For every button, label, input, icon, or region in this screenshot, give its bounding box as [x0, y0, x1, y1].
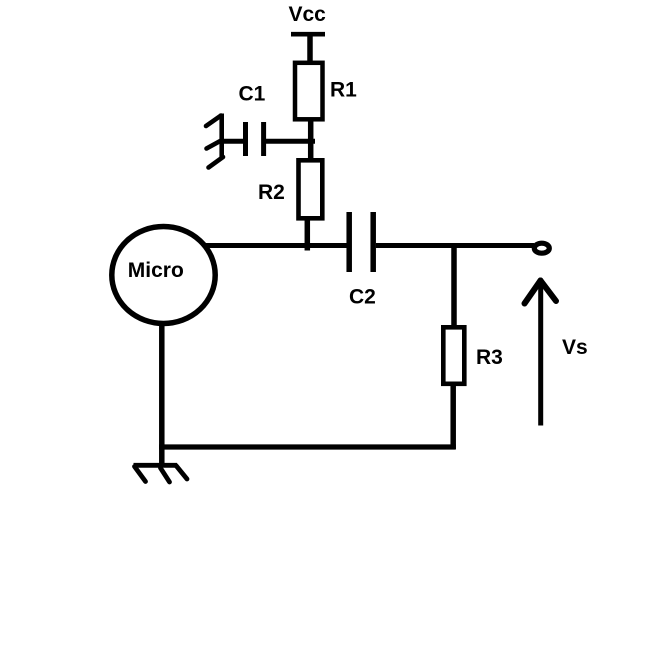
arrow Vs	[525, 281, 557, 426]
wire R2 bottom to main node	[305, 218, 311, 251]
label C2	[349, 286, 376, 309]
wire C2 to output terminal	[376, 243, 534, 248]
wire R3 bottom to bottom rail	[450, 383, 456, 449]
wire bottom rail	[159, 444, 456, 449]
label Micro	[128, 259, 184, 282]
svg-text:R1: R1	[330, 79, 357, 102]
svg-text:Vcc: Vcc	[289, 3, 327, 26]
resistor R3	[443, 327, 464, 384]
label R2	[258, 181, 285, 204]
ground (bottom)	[134, 465, 188, 482]
resistor R1	[295, 63, 323, 120]
wire R1 bottom to R2 top	[308, 119, 314, 160]
label R1	[330, 79, 357, 102]
output terminal (open circle)	[534, 243, 549, 253]
svg-text:Vs: Vs	[562, 336, 588, 359]
microphone Micro	[112, 227, 215, 324]
svg-text:C2: C2	[349, 286, 376, 309]
wire Micro bottom to ground	[159, 322, 165, 466]
node R3 branch / wire down to R3	[451, 245, 457, 327]
svg-text:R3: R3	[476, 346, 503, 369]
wire C1 right plate to branch node	[266, 139, 315, 144]
label R3	[476, 346, 503, 369]
wire Micro to C2 (main horizontal)	[206, 243, 347, 248]
capacitor C1	[246, 122, 264, 156]
power rail Vcc symbol bar	[291, 32, 325, 37]
svg-text:C1: C1	[239, 83, 266, 106]
wire Vcc bar to R1 top	[307, 34, 313, 63]
label Vcc	[289, 3, 327, 26]
label C1	[239, 83, 266, 106]
svg-text:R2: R2	[258, 181, 285, 204]
ground (left of C1, rotated)	[206, 114, 223, 168]
svg-text:Micro: Micro	[128, 259, 184, 282]
wire ground to C1 left plate	[223, 139, 244, 144]
capacitor C2	[349, 212, 373, 272]
resistor R2	[299, 160, 323, 218]
label Vs	[562, 336, 588, 359]
